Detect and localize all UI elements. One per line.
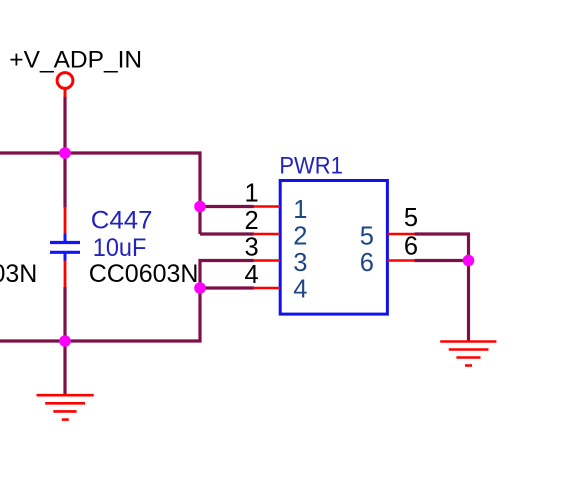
pin 1 stub — [253, 205, 280, 208]
svg-text:2: 2 — [293, 223, 307, 251]
junction: pin3/pin4 tie — [194, 282, 206, 294]
svg-text:PWR1: PWR1 — [279, 152, 343, 179]
wire: top rail down to capacitor — [63, 153, 66, 208]
junction: bottom rail / capacitor / ground — [59, 335, 71, 347]
capacitor C447 (symbol) — [50, 207, 80, 288]
connector PWR1 body — [280, 181, 387, 315]
pin 4 stub — [253, 287, 280, 290]
wire: top rail y=153 from left edge to corner — [0, 153, 200, 234]
svg-text:10uF: 10uF — [93, 234, 147, 262]
wire: pin 3 over to drop — [200, 261, 254, 289]
svg-text:3: 3 — [245, 233, 259, 261]
wire: to pin 1 — [200, 205, 254, 208]
pin 5 stub — [388, 233, 415, 236]
ground (left) — [37, 395, 94, 419]
junction: pin5/pin6 tie — [463, 255, 475, 267]
svg-text:4: 4 — [293, 276, 307, 304]
svg-text:6: 6 — [404, 233, 418, 261]
wire: pin 6 over — [415, 259, 469, 262]
pin 6 stub — [388, 259, 415, 262]
svg-text:6: 6 — [360, 249, 374, 277]
wire: pin 5 over and down — [415, 234, 469, 262]
terminal (off-page power connector) +V_ADP_IN — [57, 73, 73, 98]
svg-text:2: 2 — [245, 207, 259, 235]
svg-text:03N: 03N — [0, 260, 37, 288]
ground (right) — [440, 342, 496, 366]
svg-text:3: 3 — [293, 249, 307, 277]
junction: pin1 tap on corner drop — [194, 201, 206, 213]
wire: to pin 2 — [200, 232, 254, 235]
wire: down to right ground — [467, 261, 470, 342]
pin 2 stub — [253, 233, 280, 236]
pin 3 stub — [253, 259, 280, 262]
svg-text:5: 5 — [404, 204, 418, 232]
svg-text:+V_ADP_IN: +V_ADP_IN — [9, 47, 142, 74]
svg-text:1: 1 — [245, 179, 259, 207]
wire: vertical from terminal to top rail — [63, 97, 66, 155]
svg-text:C447: C447 — [91, 207, 153, 235]
wire: bottom rail y=341 from left edge to corner up to pin4 junction — [0, 288, 200, 341]
svg-text:1: 1 — [293, 196, 307, 224]
junction: top rail / terminal drop — [59, 147, 71, 159]
wire: to pin 4 — [200, 286, 254, 289]
svg-text:CC0603N: CC0603N — [89, 260, 199, 288]
wire: bottom rail to left ground — [63, 341, 66, 395]
wire: capacitor bottom to bottom rail — [63, 287, 66, 342]
svg-text:4: 4 — [245, 261, 259, 289]
svg-text:5: 5 — [360, 223, 374, 251]
